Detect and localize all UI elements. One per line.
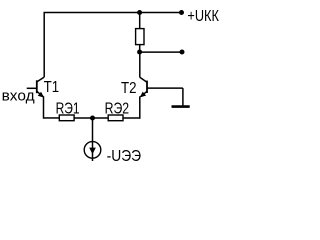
node output terminal bbox=[180, 50, 185, 55]
wire resistor bottom lead bbox=[139, 45, 141, 52]
node +UKK terminal bbox=[179, 10, 184, 15]
current source arrow bbox=[89, 148, 96, 155]
ground bar bbox=[172, 105, 190, 108]
svg-text:Т1: Т1 bbox=[44, 79, 60, 96]
T1 collector lead bbox=[37, 77, 44, 82]
wire emitter row right bbox=[123, 117, 140, 119]
ground lead vertical bbox=[182, 88, 184, 105]
transistor T2 bbox=[140, 77, 183, 97]
T1 emitter lead bbox=[37, 91, 44, 96]
wire left vertical (T1 collector to top rail) bbox=[43, 13, 45, 78]
resistor RE2 bbox=[108, 115, 123, 121]
node junction resistor/collector/output bbox=[137, 50, 142, 55]
svg-text:+UКК: +UКК bbox=[187, 8, 219, 25]
current source circle bbox=[84, 142, 101, 159]
svg-text:вход: вход bbox=[2, 87, 35, 104]
svg-text:Т2: Т2 bbox=[121, 80, 137, 97]
wire output row bbox=[140, 51, 182, 53]
current source I1 bbox=[84, 142, 101, 159]
transistor T1 bbox=[27, 77, 45, 98]
wire current source vertical bbox=[92, 118, 94, 161]
wire T1 emitter vertical bbox=[43, 96, 45, 118]
node junction top rail / R branch bbox=[137, 10, 142, 15]
svg-text:-UЭЭ: -UЭЭ bbox=[107, 148, 142, 165]
T2 emitter arrow bbox=[140, 92, 146, 98]
svg-text:RЭ2: RЭ2 bbox=[105, 101, 130, 118]
svg-text:RЭ1: RЭ1 bbox=[56, 101, 80, 118]
T2 emitter lead bbox=[141, 91, 148, 96]
wire emitter row left bbox=[44, 117, 60, 119]
T2 base lead bbox=[147, 87, 183, 89]
T1 base lead bbox=[27, 87, 37, 89]
T2 base bar bbox=[146, 81, 148, 93]
wire emitter row middle bbox=[74, 117, 108, 119]
wire T2 collector vertical bbox=[139, 52, 141, 77]
T1 base bar bbox=[36, 80, 38, 93]
wire top rail bbox=[44, 12, 183, 14]
T2 collector lead bbox=[140, 77, 147, 82]
wire T2 emitter vertical bbox=[139, 96, 141, 118]
resistor Rk (collector resistor, vertical) bbox=[136, 29, 144, 45]
resistor RE1 bbox=[59, 115, 74, 121]
ground bbox=[172, 88, 190, 107]
node junction emitter row / current source bbox=[90, 116, 95, 121]
wire resistor top lead bbox=[139, 13, 141, 30]
T1 emitter arrow bbox=[38, 92, 44, 98]
